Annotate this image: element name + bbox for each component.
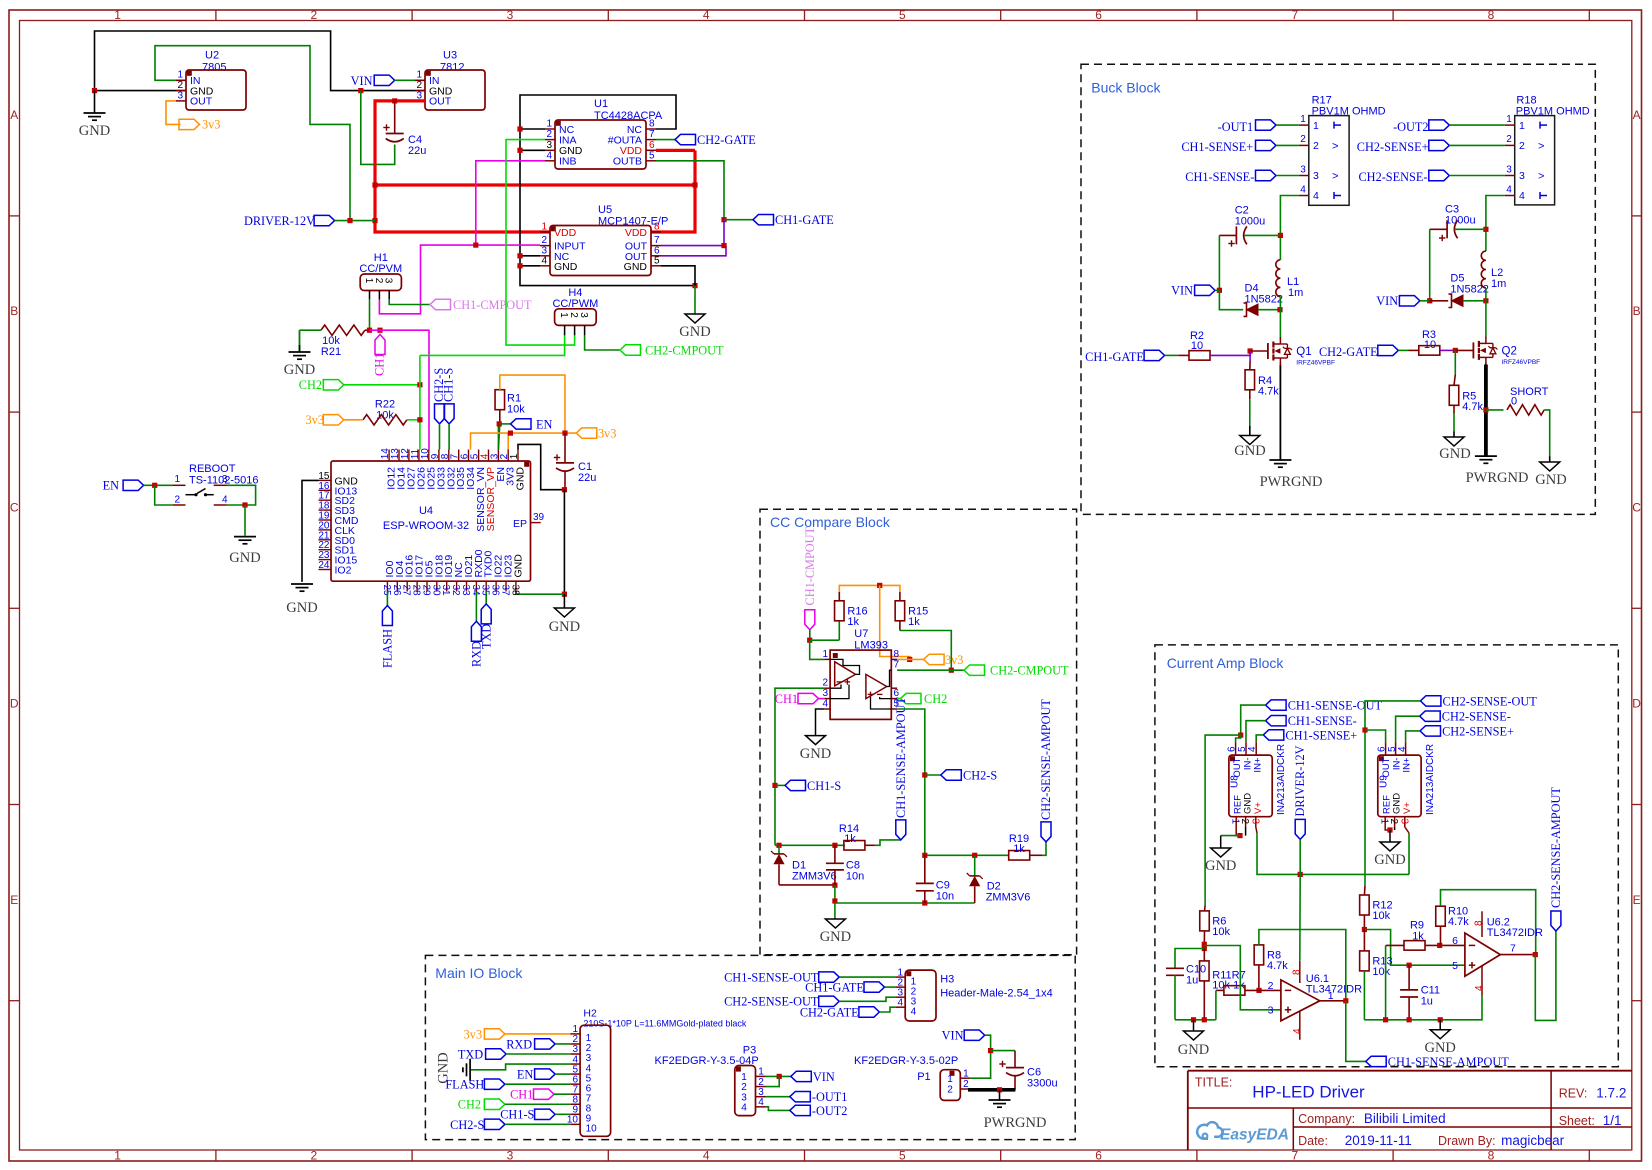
svg-text:3: 3 xyxy=(507,1148,514,1162)
wire GND rail right (U6.2) xyxy=(1364,996,1482,1020)
net flag CH2-SENSE-OUT xyxy=(1420,696,1441,706)
svg-text:V+: V+ xyxy=(1253,802,1264,814)
svg-text:U9: U9 xyxy=(1378,775,1389,788)
ground GND (ESP left) xyxy=(291,583,313,585)
wire EN to reboot switch xyxy=(144,484,173,486)
wire P3.3 to -OUT1 xyxy=(766,1096,790,1098)
wire SHORT to GND xyxy=(1544,410,1550,456)
wire GND rail left (U6.1) xyxy=(1175,1019,1216,1021)
svg-text:OUTB: OUTB xyxy=(613,156,642,168)
op-amp U7.2 triangle xyxy=(866,674,887,698)
svg-text:6: 6 xyxy=(1377,746,1388,752)
svg-text:10k: 10k xyxy=(1212,926,1230,938)
svg-text:4: 4 xyxy=(703,1148,710,1162)
svg-text:8: 8 xyxy=(654,222,660,233)
junction GND at U2 pin2 xyxy=(92,88,97,93)
svg-text:4: 4 xyxy=(1506,184,1512,195)
svg-text:31: 31 xyxy=(440,585,451,597)
svg-text:1k: 1k xyxy=(844,833,856,845)
transistor Q2 IRFZ46VPBF xyxy=(1472,342,1474,358)
svg-text:A: A xyxy=(10,108,18,122)
resistor R21 10k xyxy=(321,325,365,335)
svg-text:8: 8 xyxy=(1488,1148,1495,1162)
net flag VIN (P3) xyxy=(791,1071,812,1081)
svg-text:5: 5 xyxy=(899,8,906,22)
svg-text:1: 1 xyxy=(509,453,520,459)
wire GND top bus (U2/U3 ground) xyxy=(95,90,187,92)
svg-text:10n: 10n xyxy=(936,891,954,903)
svg-text:1/1: 1/1 xyxy=(1603,1113,1622,1128)
svg-text:C: C xyxy=(1632,500,1641,514)
svg-text:3: 3 xyxy=(1313,170,1319,182)
svg-text:CH1-S: CH1-S xyxy=(442,368,456,402)
wire U9 V+ to DRIVER-12V rail xyxy=(1405,827,1409,833)
svg-text:CH2: CH2 xyxy=(458,1098,481,1112)
svg-text:Main IO Block: Main IO Block xyxy=(435,965,523,981)
svg-text:1000u: 1000u xyxy=(1235,216,1266,228)
svg-text:26: 26 xyxy=(391,585,402,597)
wire gate node to R4 xyxy=(1249,351,1251,361)
svg-text:8: 8 xyxy=(1292,969,1303,975)
svg-text:PWRGND: PWRGND xyxy=(984,1115,1047,1131)
svg-text:4: 4 xyxy=(222,495,228,506)
svg-text:2: 2 xyxy=(174,495,180,506)
svg-text:U5: U5 xyxy=(598,204,612,216)
svg-text:3: 3 xyxy=(1519,170,1525,182)
wire CH1-S to ESP pin8 xyxy=(448,424,450,450)
block Current Amp Block border xyxy=(1155,645,1618,1067)
svg-text:29: 29 xyxy=(421,585,432,597)
wire H2.4 to GND xyxy=(470,1064,570,1070)
svg-text:7: 7 xyxy=(894,660,900,671)
svg-text:7: 7 xyxy=(649,129,655,140)
svg-text:39: 39 xyxy=(533,512,545,523)
svg-text:Bilibili Limited: Bilibili Limited xyxy=(1364,1111,1446,1126)
ground GND (U5) xyxy=(694,286,696,314)
svg-text:1: 1 xyxy=(1300,114,1306,125)
svg-text:CH2-SENSE-: CH2-SENSE- xyxy=(1358,170,1427,184)
resistor R5 4.7k xyxy=(1449,385,1459,405)
svg-text:33: 33 xyxy=(460,585,471,597)
net flag TXD (ESP TXD0) xyxy=(485,592,487,604)
svg-text:2: 2 xyxy=(1268,980,1274,992)
svg-text:GND: GND xyxy=(1439,446,1470,462)
svg-text:GND: GND xyxy=(286,600,317,616)
svg-text:OUT: OUT xyxy=(1381,757,1392,777)
svg-text:Date:: Date: xyxy=(1298,1134,1328,1148)
svg-text:Current Amp Block: Current Amp Block xyxy=(1167,655,1285,671)
svg-text:4: 4 xyxy=(1247,746,1258,752)
svg-text:3: 3 xyxy=(822,688,828,699)
junction R21/CH1 node xyxy=(367,328,372,333)
svg-text:OUT: OUT xyxy=(1232,757,1243,777)
resistor R12 10k xyxy=(1363,886,1366,895)
svg-text:1: 1 xyxy=(114,8,121,22)
svg-text:B: B xyxy=(1633,304,1641,318)
svg-text:5: 5 xyxy=(649,150,655,161)
svg-text:CH1-GATE: CH1-GATE xyxy=(775,213,834,227)
wire CH1-CMPOUT to U7.1 xyxy=(809,630,811,640)
svg-text:ZMM3V6: ZMM3V6 xyxy=(986,891,1031,903)
svg-text:37: 37 xyxy=(500,585,511,597)
svg-text:3v3: 3v3 xyxy=(945,653,963,667)
wire R17.4 to L1/C2 node xyxy=(1280,196,1298,260)
svg-text:Sheet:: Sheet: xyxy=(1559,1114,1595,1128)
wire ESP pin15 to GND xyxy=(302,480,319,582)
wire CH1 net magenta (U1 INB / U5 INPUT / H1.2) xyxy=(476,161,545,245)
svg-text:CH1: CH1 xyxy=(510,1088,533,1102)
svg-text:EN: EN xyxy=(517,1068,534,1082)
svg-text:VDD: VDD xyxy=(625,227,648,239)
svg-text:P1: P1 xyxy=(917,1071,930,1083)
svg-text:CH2: CH2 xyxy=(924,692,947,706)
wire CH1-S rail to R14/D1 xyxy=(775,844,845,846)
net flag CH1 (vertical) xyxy=(375,335,385,355)
ground GND (U6.2 rail) xyxy=(1439,1020,1441,1030)
svg-text:1k: 1k xyxy=(847,616,859,628)
svg-text:U4: U4 xyxy=(419,505,433,517)
ground GND (ESP right) xyxy=(563,594,565,608)
capacitor C6 3300u xyxy=(1014,1051,1016,1068)
wire VIN to P1.1 and C6 xyxy=(970,1035,990,1078)
svg-text:CH2-S: CH2-S xyxy=(450,1118,484,1132)
module U4 ESP-WROOM-32 xyxy=(331,461,531,581)
svg-text:FLASH: FLASH xyxy=(381,629,395,668)
svg-text:U7: U7 xyxy=(854,628,868,640)
capacitor C9 10n xyxy=(924,855,926,883)
resistor R8 4.7k (feedback) xyxy=(1254,945,1264,965)
wire CH1-SENSE-OUT to U8.6 and R6 xyxy=(1241,705,1266,735)
power PWRGND (buck ch1) xyxy=(1269,459,1291,461)
svg-text:GND: GND xyxy=(1374,852,1405,868)
wire R16 bottom to node xyxy=(838,621,840,640)
svg-text:CH1-SENSE-: CH1-SENSE- xyxy=(1288,714,1357,728)
wire R12 bottom node A2 xyxy=(1363,915,1365,930)
svg-text:KF2EDGR-Y-3.5-02P: KF2EDGR-Y-3.5-02P xyxy=(854,1055,958,1067)
wire CH2-SENSE- to U9.5 xyxy=(1396,716,1420,742)
svg-text:VIN: VIN xyxy=(1376,294,1398,308)
junction SHORT node xyxy=(1483,407,1488,412)
svg-text:U8: U8 xyxy=(1229,775,1240,788)
svg-text:1: 1 xyxy=(177,70,183,81)
svg-text:Buck Block: Buck Block xyxy=(1091,80,1161,96)
svg-text:R21: R21 xyxy=(321,346,341,358)
U4 top pins xyxy=(388,450,390,462)
net flag CH1-SENSE-AMPOUT xyxy=(1366,1056,1387,1066)
svg-text:10: 10 xyxy=(586,1124,598,1135)
svg-text:magicbear: magicbear xyxy=(1501,1133,1565,1148)
wire U1/U5 NC-GND loop (black) xyxy=(520,95,695,286)
wire -OUT2 to R18.1 xyxy=(1449,124,1504,126)
svg-text:4.7k: 4.7k xyxy=(1448,916,1469,928)
svg-text:3: 3 xyxy=(383,278,394,284)
svg-text:1k: 1k xyxy=(908,616,920,628)
svg-text:2: 2 xyxy=(177,80,183,91)
svg-text:CH2-GATE: CH2-GATE xyxy=(800,1005,859,1019)
wire CH1-SENSE+ to R17.2 xyxy=(1276,144,1299,146)
svg-text:CH1: CH1 xyxy=(373,353,387,376)
svg-text:>: > xyxy=(1538,140,1544,152)
svg-text:Q2: Q2 xyxy=(1502,346,1517,358)
resistor R11 10k (node A1 to GND) xyxy=(1203,949,1205,961)
svg-text:U1: U1 xyxy=(594,98,608,110)
svg-text:CH1-SENSE+: CH1-SENSE+ xyxy=(1285,728,1357,742)
svg-text:GND: GND xyxy=(1178,1042,1209,1058)
svg-text:2: 2 xyxy=(1506,134,1512,145)
svg-text:CH2: CH2 xyxy=(299,378,322,392)
svg-text:7: 7 xyxy=(1291,1148,1298,1162)
svg-text:4.7k: 4.7k xyxy=(1267,960,1288,972)
wire CH1 to ESP pin10 (magenta) xyxy=(380,330,429,449)
op-amp U7.1 triangle xyxy=(835,662,856,686)
svg-text:CH1-GATE: CH1-GATE xyxy=(805,981,864,995)
svg-text:Company:: Company: xyxy=(1298,1112,1355,1126)
svg-text:CH2-CMPOUT: CH2-CMPOUT xyxy=(990,664,1069,678)
wire R13 bottom to GND rail xyxy=(1363,971,1365,1020)
svg-text:OUT: OUT xyxy=(190,96,213,108)
svg-text:8: 8 xyxy=(1474,920,1485,926)
svg-text:35: 35 xyxy=(480,585,491,597)
net flag -OUT1 xyxy=(790,1092,811,1102)
svg-text:>: > xyxy=(1538,171,1544,183)
wire reboot to GND xyxy=(244,505,246,536)
svg-text:GND: GND xyxy=(1535,472,1566,488)
svg-text:VIN: VIN xyxy=(942,1029,964,1043)
ground GND (R4) xyxy=(1240,436,1260,445)
svg-text:4: 4 xyxy=(741,1102,747,1113)
wire R7/R8 node to U6.1 pin2 xyxy=(1245,989,1281,991)
net flag 3v3 (U2 output) xyxy=(179,119,200,129)
svg-text:3v3: 3v3 xyxy=(598,427,616,441)
ground GND (reboot) xyxy=(234,536,256,538)
svg-text:V+: V+ xyxy=(1402,802,1413,814)
wire R18.4 to L2/C3 node xyxy=(1486,196,1505,252)
svg-text:4: 4 xyxy=(1397,746,1408,752)
svg-text:3v3: 3v3 xyxy=(306,413,324,427)
svg-text:36: 36 xyxy=(490,585,501,597)
net flag DRIVER-12V (vertical) xyxy=(1295,819,1305,839)
wire C8/D1 node to GND rail xyxy=(834,885,836,903)
net flag CH2-S (CC block) xyxy=(925,774,941,776)
svg-text:CH1-S: CH1-S xyxy=(807,779,841,793)
svg-text:ESP-WROOM-32: ESP-WROOM-32 xyxy=(383,520,469,532)
svg-text:CH2-SENSE-OUT: CH2-SENSE-OUT xyxy=(1443,694,1538,708)
net flag CH2 (U7 pin6) xyxy=(901,693,922,703)
wire CH2-GATE to R3 xyxy=(1398,349,1408,351)
wire R9 right to U6.2 pin6 xyxy=(1425,944,1465,946)
svg-text:1: 1 xyxy=(947,1074,953,1085)
net flag CH2-SENSE+ xyxy=(1420,726,1441,736)
svg-text:1000u: 1000u xyxy=(1445,215,1476,227)
svg-text:4.7k: 4.7k xyxy=(1258,386,1279,398)
svg-text:4.7k: 4.7k xyxy=(1462,401,1483,413)
net flag CH1-SENSE- xyxy=(1266,716,1287,726)
svg-text:CH2-SENSE-: CH2-SENSE- xyxy=(1442,710,1511,724)
svg-text:34: 34 xyxy=(470,585,481,597)
svg-text:CH2-S: CH2-S xyxy=(963,768,997,782)
svg-text:3: 3 xyxy=(177,91,183,102)
svg-text:-OUT1: -OUT1 xyxy=(812,1090,848,1104)
net flag CH2-CMPOUT (CC block) xyxy=(964,665,985,675)
svg-text:REBOOT: REBOOT xyxy=(189,463,236,475)
svg-text:1k: 1k xyxy=(1013,843,1025,855)
svg-text:1: 1 xyxy=(541,222,547,233)
svg-text:GND: GND xyxy=(820,929,851,945)
svg-text:CH1-S: CH1-S xyxy=(500,1108,534,1122)
svg-text:1: 1 xyxy=(822,649,828,660)
svg-text:0: 0 xyxy=(1511,396,1517,408)
resistor R10 4.7k (feedback) xyxy=(1436,906,1446,926)
svg-text:GND: GND xyxy=(554,261,578,273)
wire CH1-SENSE- to U8.5 xyxy=(1246,721,1266,743)
svg-text:38: 38 xyxy=(509,585,520,597)
wire SHORT resistor left xyxy=(1486,409,1504,411)
wire L1 to Q1 drain xyxy=(1279,297,1281,310)
ground GND (R21) xyxy=(299,330,301,352)
svg-text:U3: U3 xyxy=(443,50,457,62)
svg-text:1: 1 xyxy=(416,70,422,81)
wire U5 GND pin5 xyxy=(661,266,695,286)
wire CC ground rail xyxy=(835,902,975,904)
ground GND (R5) xyxy=(1444,437,1464,446)
svg-text:Drawn By:: Drawn By: xyxy=(1438,1134,1496,1148)
svg-text:GND: GND xyxy=(515,467,527,491)
wire L2 to Q2 drain xyxy=(1485,288,1487,301)
wire VIN flag to U3 IN xyxy=(395,79,425,81)
wire R19 to CH2-SENSE-AMPOUT flag xyxy=(1030,854,1043,856)
svg-text:CH2-SENSE+: CH2-SENSE+ xyxy=(1442,724,1514,738)
svg-text:CH2-GATE: CH2-GATE xyxy=(1319,345,1378,359)
svg-text:2: 2 xyxy=(546,129,552,140)
svg-text:FLASH: FLASH xyxy=(445,1078,484,1092)
svg-text:10k: 10k xyxy=(1372,910,1390,922)
svg-text:CH2-SENSE-AMPOUT: CH2-SENSE-AMPOUT xyxy=(1549,787,1563,908)
wire P3.1/P3.2 to VIN xyxy=(766,1075,791,1077)
wire reboot switch right loop xyxy=(227,485,256,505)
wire U6.1 output node xyxy=(1320,1000,1346,1002)
svg-text:22u: 22u xyxy=(578,472,596,484)
svg-text:3v3: 3v3 xyxy=(464,1027,482,1041)
svg-text:1N5822: 1N5822 xyxy=(1450,284,1489,296)
amplifier U9 INA213AIDCKR xyxy=(1378,755,1421,817)
svg-text:U2: U2 xyxy=(205,50,219,62)
wire 3v3 top rail (orange) xyxy=(838,592,840,601)
svg-text:INA213AIDCKR: INA213AIDCKR xyxy=(1276,744,1287,815)
svg-text:GND: GND xyxy=(549,619,580,635)
svg-text:3: 3 xyxy=(578,312,589,318)
svg-text:4: 4 xyxy=(897,997,903,1008)
wire Q2 source to PWRGND (thick) xyxy=(1485,361,1487,364)
svg-text:HP-LED Driver: HP-LED Driver xyxy=(1252,1083,1365,1102)
svg-text:2: 2 xyxy=(310,8,317,22)
svg-text:3: 3 xyxy=(507,8,514,22)
svg-text:EN: EN xyxy=(103,479,120,493)
net flag 3v3 (U7) xyxy=(924,654,945,664)
wire 3v3 rail (orange, ESP) xyxy=(471,433,577,449)
resistor R13 10k xyxy=(1363,930,1365,951)
net flag CH1-SENSE-AMPOUT (CC block) xyxy=(896,820,906,840)
svg-text:4: 4 xyxy=(1292,1028,1303,1034)
wire CH2-S net (U7 pin5 rail) xyxy=(897,709,925,855)
resistor R19 1k xyxy=(1009,851,1030,861)
svg-text:8: 8 xyxy=(649,119,655,130)
wire DRIVER-12V flag to bus xyxy=(335,220,375,222)
svg-text:1: 1 xyxy=(1519,120,1525,132)
wire U6.2 output to CH2-SENSE-AMPOUT flag xyxy=(1535,931,1556,1020)
wire VIN-to-GND-line junction branch (C4 ground) xyxy=(358,88,363,93)
svg-text:GND: GND xyxy=(1205,858,1236,874)
wire R1 bottom to EN / ESP pin3 xyxy=(499,410,501,424)
svg-text:2: 2 xyxy=(1300,134,1306,145)
net flag CH1-CMPOUT xyxy=(430,299,451,309)
svg-text:E: E xyxy=(10,893,18,907)
op-amp U6.1 TL3472IDR xyxy=(1281,980,1320,1021)
inductor L1 1m xyxy=(1276,260,1281,297)
svg-text:27: 27 xyxy=(401,585,412,597)
svg-text:CH1-CMPOUT: CH1-CMPOUT xyxy=(453,298,532,312)
svg-text:1u: 1u xyxy=(1421,996,1433,1008)
wire U9 REF/GND to GND xyxy=(1385,827,1390,830)
svg-text:VIN: VIN xyxy=(1171,284,1193,298)
svg-text:-OUT1: -OUT1 xyxy=(1218,120,1254,134)
svg-text:CH2-SENSE-AMPOUT: CH2-SENSE-AMPOUT xyxy=(1039,699,1053,820)
svg-text:GND: GND xyxy=(1234,443,1265,459)
svg-text:Header-Male-2.54_1x4: Header-Male-2.54_1x4 xyxy=(940,988,1053,1000)
net flag CH2-CMPOUT xyxy=(620,345,641,355)
svg-text:INB: INB xyxy=(559,156,577,168)
wire CH1-GATE to R2 xyxy=(1165,354,1179,356)
svg-text:D: D xyxy=(10,697,19,711)
svg-text:TL3472IDR: TL3472IDR xyxy=(1306,984,1362,996)
svg-text:CH1-GATE: CH1-GATE xyxy=(1085,350,1144,364)
net flag 3v3 (ESP) xyxy=(576,428,597,438)
net flag CH1-SENSE-OUT xyxy=(1266,700,1287,710)
resistor R14 1k xyxy=(844,841,865,851)
svg-text:30: 30 xyxy=(430,585,441,597)
wire H1 pin1 to R21 node xyxy=(369,299,371,330)
net flag EN (R1) xyxy=(499,423,510,425)
svg-text:3300u: 3300u xyxy=(1027,1078,1058,1090)
net flag RXD (ESP RXD0) xyxy=(475,592,477,622)
svg-text:-OUT2: -OUT2 xyxy=(812,1104,848,1118)
ground GND (H2, rotated) xyxy=(469,1059,471,1081)
svg-text:IN+: IN+ xyxy=(1402,757,1413,773)
svg-text:7: 7 xyxy=(1510,943,1516,955)
svg-text:6: 6 xyxy=(1095,1148,1102,1162)
wire R22 to CH2 net xyxy=(407,419,420,421)
svg-text:REV:: REV: xyxy=(1559,1087,1588,1101)
svg-text:5: 5 xyxy=(1452,960,1458,972)
svg-text:1m: 1m xyxy=(1491,278,1506,290)
svg-text:TXD: TXD xyxy=(479,624,493,649)
svg-text:6: 6 xyxy=(1227,746,1238,752)
U4 bottom pins xyxy=(386,581,388,591)
svg-text:GND: GND xyxy=(1391,793,1402,814)
capacitor C1 22u xyxy=(564,433,566,463)
wire C2 left to VIN xyxy=(1218,235,1220,290)
svg-text:IRFZ46VPBF: IRFZ46VPBF xyxy=(1502,359,1541,366)
svg-text:CH1-SENSE-AMPOUT: CH1-SENSE-AMPOUT xyxy=(894,697,908,818)
block Main IO Block border xyxy=(425,955,1075,1139)
wire U6.2 output node xyxy=(1500,954,1535,956)
wire DRIVER-12V to U2 IN (green) xyxy=(155,46,350,221)
svg-text:4: 4 xyxy=(911,1007,917,1018)
net flag CH2-SENSE- xyxy=(1420,711,1441,721)
wire CH2-SENSE+ to U9.4 xyxy=(1406,731,1420,742)
wire U7 internal connections xyxy=(830,685,841,689)
svg-text:6: 6 xyxy=(1452,935,1458,947)
net flag CH2-SENSE-AMPOUT (CC block) xyxy=(1041,822,1051,842)
